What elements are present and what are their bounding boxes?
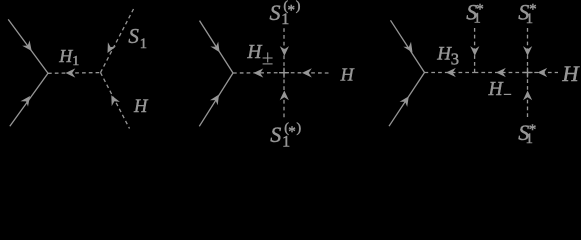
svg-text:S: S <box>128 24 139 48</box>
scalar propagator H3 (dashed, d3) <box>425 72 475 74</box>
arrowhead on lower S1(*) (points up) <box>280 91 289 101</box>
scalar line H (dashed, lower-right, d1) <box>101 73 130 129</box>
svg-text:H: H <box>133 97 149 117</box>
arrowhead on upper-a S1* (points down) <box>470 46 479 56</box>
scalar line S1* upper-b (dashed vertical, d3) <box>527 27 529 73</box>
arrowhead on S1 line (points to vertex) <box>108 42 117 53</box>
effective vertex cross (vertical bar, d2) <box>283 68 285 78</box>
arrowhead on H line (points up-left to vertex) <box>111 95 120 106</box>
effective vertex cross (vertical bar, d3) <box>527 68 529 78</box>
svg-text:*: * <box>529 122 537 138</box>
arrowhead on upper-b S1* (points down) <box>523 46 532 56</box>
arrowhead on q line (d3, points to vertex) <box>403 42 412 53</box>
svg-text:*: * <box>288 124 296 140</box>
fermion line qbar (diagram 1, lower-left) <box>10 73 48 126</box>
fermion line q (diagram 1, upper-left) <box>8 19 48 73</box>
fermion line qbar (diagram 3, lower-left) <box>389 73 425 127</box>
scalar line H right (dashed horizontal, d2) <box>284 72 330 74</box>
scalar propagator H+- (dashed, d2) <box>233 72 284 74</box>
arrowhead on q line (d2, points to vertex) <box>210 42 219 53</box>
scalar propagator H- (dashed, d3) <box>475 72 528 74</box>
arrowhead on lower-b S1* (points up) <box>523 91 532 101</box>
svg-text:): ) <box>297 121 302 136</box>
arrowhead on qbar line (d3, points to vertex) <box>400 96 409 107</box>
arrowhead on H1 propagator (points left) <box>66 68 76 77</box>
arrowhead on H line d3 (points left) <box>537 68 547 77</box>
svg-text:H: H <box>246 42 262 63</box>
fermion line qbar (diagram 2, lower-left) <box>199 73 233 126</box>
fermion line q (diagram 2, upper-left) <box>200 21 234 73</box>
svg-text:1: 1 <box>140 36 147 52</box>
svg-text:H: H <box>488 79 504 100</box>
arrowhead on qbar line (d1, points to vertex) <box>21 96 31 107</box>
svg-text:H: H <box>561 61 580 86</box>
arrowhead on H+- propagator (points left) <box>254 68 264 77</box>
scalar line S1(*) lower (dashed vertical, d2) <box>283 73 285 118</box>
label H- subscript minus (drawn, d3) <box>504 93 511 95</box>
arrowhead on H- propagator (points left) <box>496 68 506 77</box>
svg-text:): ) <box>296 0 301 14</box>
scalar propagator H1 (dashed, d1) <box>48 72 101 75</box>
scalar line S1* lower-b (dashed vertical, d3) <box>527 73 529 118</box>
scalar line S1 (dashed, upper-right, d1) <box>101 9 134 73</box>
arrowhead on H line d2 (points left) <box>302 68 312 77</box>
svg-text:H: H <box>58 46 73 66</box>
arrowhead on H3 propagator (points left) <box>446 68 456 77</box>
arrowhead on q line (d1, points to vertex) <box>22 40 32 51</box>
fermion line q (diagram 3, upper-left) <box>391 20 425 72</box>
svg-text:*: * <box>476 2 484 18</box>
scalar line H right (dashed, d3) <box>528 72 559 74</box>
label Hpm subscript plus-minus (drawn, d2) <box>263 52 273 64</box>
effective vertex cross (horizontal bar, d3) <box>523 72 533 74</box>
svg-text:H: H <box>436 43 452 64</box>
arrowhead on upper S1(*) (points down) <box>280 46 289 56</box>
scalar line S1(*) upper (dashed vertical, d2) <box>283 27 285 73</box>
svg-text:*: * <box>529 2 537 18</box>
svg-text:S: S <box>270 0 281 25</box>
svg-text:S: S <box>270 122 281 147</box>
scalar line S1* upper-a (dashed vertical, d3) <box>474 27 476 73</box>
svg-text:*: * <box>288 2 296 18</box>
arrowhead on qbar line (d2, points to vertex) <box>210 95 219 106</box>
svg-text:H: H <box>340 64 355 84</box>
svg-text:1: 1 <box>72 54 79 69</box>
svg-text:3: 3 <box>451 50 459 69</box>
effective vertex cross (horizontal bar, d2) <box>279 72 289 74</box>
